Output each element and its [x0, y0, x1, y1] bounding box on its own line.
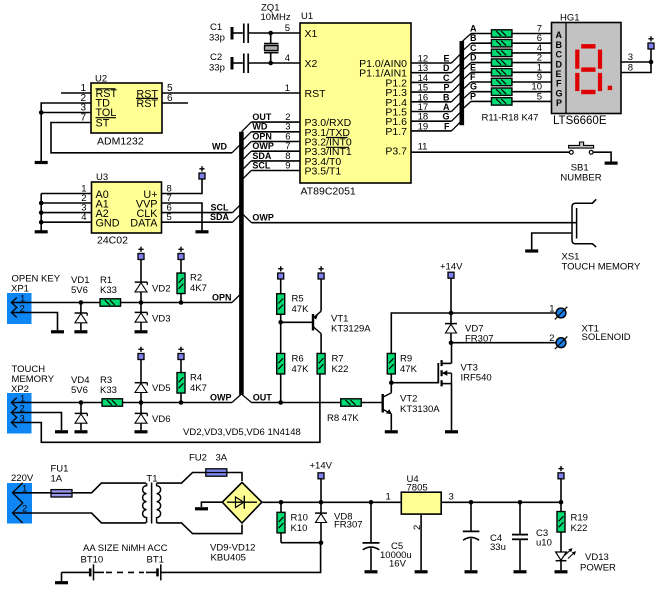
junction C1/ZQ1 — [268, 31, 273, 36]
transistor VT3 IRF540 (MOSFET) — [438, 360, 451, 386]
svg-text:3: 3 — [449, 492, 454, 503]
capacitor C3 — [512, 502, 528, 570]
ground U3 left — [35, 230, 48, 233]
diode VD7 FR307 — [450, 313, 452, 324]
svg-text:C: C — [443, 73, 450, 83]
svg-text:F: F — [444, 121, 450, 131]
wire U2 pin6 stub — [162, 102, 188, 104]
display HG1 body — [552, 23, 622, 114]
bus vertical (display) — [459, 41, 464, 125]
wire U3 pin4 — [41, 221, 91, 223]
IC U2 body — [91, 83, 162, 133]
junction VD8 top — [319, 500, 324, 505]
svg-text:X2: X2 — [305, 58, 318, 70]
ground C3 — [514, 570, 527, 573]
wire ground to BT10 — [62, 571, 90, 573]
junction U3 pin4 — [39, 220, 44, 225]
wire SB1 to ground — [593, 152, 611, 162]
ground battery — [61, 572, 63, 582]
wire XT1 pin2 — [451, 342, 559, 344]
svg-text:G: G — [470, 82, 477, 92]
svg-text:OUT: OUT — [252, 112, 272, 122]
svg-text:1: 1 — [549, 303, 554, 314]
resistor R1 — [100, 299, 121, 306]
svg-text:16V: 16V — [389, 559, 407, 570]
svg-text:WD: WD — [212, 142, 227, 152]
resistor R18 — [491, 98, 512, 105]
terminal XT1.1 — [555, 307, 568, 320]
svg-text:AA SIZE NiMH ACC: AA SIZE NiMH ACC — [83, 543, 168, 554]
wire R10 bottom — [281, 542, 321, 544]
connector XP1 body — [7, 293, 32, 324]
ground VT2 — [385, 430, 398, 433]
LED VD13 — [556, 548, 576, 570]
wire U3 pin8 to +5V — [162, 179, 203, 194]
junction VD1 — [79, 300, 84, 305]
svg-text:SCL: SCL — [211, 203, 230, 213]
svg-text:C2: C2 — [210, 52, 222, 63]
bridge rectifier VD9-VD12 — [222, 482, 261, 523]
7-seg segment B — [598, 50, 602, 69]
ground bridge — [195, 507, 208, 510]
svg-text:3: 3 — [628, 52, 633, 63]
wire U4 out rail — [441, 479, 561, 503]
wire R3 to OWP slash — [123, 402, 233, 404]
junction R5/VT1 base — [278, 320, 283, 325]
wire FU1 to T1 primary — [72, 483, 146, 493]
junction C5 — [369, 500, 374, 505]
transistor VT2 KT3130A (NPN) — [383, 383, 392, 431]
svg-text:C: C — [470, 43, 477, 53]
svg-text:47K: 47K — [292, 364, 310, 375]
junction VD4 — [79, 400, 84, 405]
svg-text:R5: R5 — [292, 294, 304, 305]
svg-text:u10: u10 — [536, 538, 552, 549]
wires U1 P1.x to bus with slashes — [411, 53, 461, 131]
wire OUT row to U1 pin2 — [251, 121, 300, 123]
junction U3 pin2 — [39, 201, 44, 206]
junction +14V/VD7 — [449, 311, 454, 316]
connector XP2 contacts — [11, 398, 16, 428]
capacitor C2 — [231, 57, 234, 70]
junction R9/gate — [389, 380, 394, 385]
svg-text:E: E — [556, 69, 562, 79]
svg-text:24C02: 24C02 — [97, 235, 128, 247]
ground C4 — [465, 570, 478, 573]
svg-text:R10: R10 — [291, 513, 308, 524]
junction R4 — [179, 400, 184, 405]
svg-text:K33: K33 — [100, 385, 117, 396]
svg-text:X1: X1 — [305, 28, 318, 40]
svg-text:33p: 33p — [209, 63, 225, 74]
wire XP1 pin2 to ground — [11, 313, 57, 331]
wire +14V node down — [320, 479, 322, 503]
node +5V (R2) — [178, 247, 184, 260]
resistor R12 — [491, 40, 512, 47]
svg-text:R8 47K: R8 47K — [327, 413, 359, 424]
ground VD13 — [555, 570, 568, 573]
svg-text:1: 1 — [386, 492, 391, 503]
wire FU2 to bridge top — [227, 473, 242, 482]
svg-text:C1: C1 — [210, 22, 222, 33]
ground VD3 — [135, 330, 148, 333]
svg-text:SDA: SDA — [252, 151, 272, 161]
svg-text:5V6: 5V6 — [71, 385, 88, 396]
crystal ZQ1 — [264, 33, 279, 63]
svg-text:OPN: OPN — [252, 131, 272, 141]
wire SCL row to U1 pin9 — [251, 170, 300, 172]
resistor R9 — [387, 353, 395, 374]
wire OWP row to U1 pin7 — [251, 150, 300, 152]
svg-text:T1: T1 — [146, 474, 157, 485]
svg-text:B: B — [470, 33, 477, 43]
battery BT1 — [158, 564, 161, 580]
IC U4 7805 body — [401, 492, 441, 514]
svg-text:SDA: SDA — [210, 212, 230, 222]
svg-text:B: B — [556, 40, 563, 50]
fuse FU1 — [51, 490, 72, 497]
resistor R16 — [491, 78, 512, 85]
wire OWP from bus to XS1 — [242, 214, 251, 223]
resistor R14 — [491, 59, 512, 66]
resistor R4 — [180, 360, 182, 373]
7-seg segment F — [575, 50, 579, 69]
junction VD2 — [139, 300, 144, 305]
svg-text:47K: 47K — [292, 304, 310, 315]
svg-text:9: 9 — [285, 160, 290, 171]
svg-text:SCL: SCL — [252, 160, 271, 170]
wire U3 pin6 SCL to bus — [162, 212, 233, 214]
svg-text:TOUCH MEMORY: TOUCH MEMORY — [562, 262, 641, 273]
svg-text:AT89C2051: AT89C2051 — [301, 186, 356, 198]
resistor R11 — [491, 30, 512, 37]
svg-text:R7: R7 — [332, 354, 344, 365]
svg-text:5: 5 — [167, 212, 172, 223]
resistor R7 — [317, 353, 325, 374]
wire VT3 source to ground — [451, 384, 453, 431]
svg-text:P3.7: P3.7 — [385, 146, 407, 158]
node +14V (bottom) — [318, 473, 324, 479]
node +5V (R4) — [178, 347, 184, 360]
svg-text:5: 5 — [285, 23, 290, 34]
svg-text:4K7: 4K7 — [190, 383, 207, 394]
svg-text:FU2: FU2 — [189, 453, 207, 464]
wire C2 to U1 X2 — [249, 62, 300, 64]
svg-text:KT3130A: KT3130A — [400, 404, 440, 415]
ground XP1 — [51, 330, 64, 333]
bus vertical (left) — [239, 132, 244, 395]
wire HG1 pin3 — [621, 61, 651, 63]
junction VD5 — [139, 400, 144, 405]
svg-text:6: 6 — [167, 93, 173, 104]
wire U2 pin2 to vertical — [41, 103, 91, 113]
contact XS1 inner — [576, 208, 578, 239]
svg-text:K22: K22 — [571, 523, 588, 534]
svg-text:VD2,VD3,VD5,VD6 1N4148: VD2,VD3,VD5,VD6 1N4148 — [183, 427, 301, 438]
wire U3 pin2 — [41, 202, 91, 204]
ground VT3 — [445, 430, 458, 433]
ground XS1 — [525, 249, 538, 252]
wire T1 secondary top to FU2 — [157, 473, 206, 484]
svg-text:FR307: FR307 — [334, 520, 363, 531]
junction U2 pins2/3 — [39, 110, 44, 115]
svg-text:U3: U3 — [96, 172, 108, 183]
svg-text:R9: R9 — [400, 354, 412, 365]
connector XP3 220V body — [7, 483, 32, 524]
7-seg segment G — [581, 67, 595, 71]
zener VD1 — [80, 303, 82, 314]
resistor R2 — [180, 260, 182, 274]
wire U1 pin11 to SB1 — [411, 151, 569, 153]
fuse FU2 — [206, 469, 227, 476]
junction HG1 supply — [649, 60, 654, 65]
junction U3 pin3 — [39, 210, 44, 215]
svg-text:P: P — [470, 91, 476, 101]
node +5V (VD2) — [138, 247, 144, 260]
junction R19 — [559, 500, 564, 505]
junction C4 — [469, 500, 474, 505]
resistor R17 — [491, 88, 512, 95]
svg-text:P3.5/T1: P3.5/T1 — [305, 166, 342, 178]
svg-text:5: 5 — [537, 91, 542, 102]
resistor R10 — [280, 502, 282, 512]
battery BT10 — [90, 564, 93, 580]
wire XP2 pin1 to R3 — [11, 402, 102, 404]
node +5V (display) — [648, 36, 654, 49]
svg-text:33u: 33u — [490, 542, 506, 553]
svg-text:DATA: DATA — [130, 218, 158, 230]
svg-text:U2: U2 — [95, 74, 107, 85]
7-seg segment E — [575, 73, 579, 91]
resistor R6 — [280, 322, 282, 353]
ground VD1 — [74, 330, 87, 333]
svg-text:+14V: +14V — [310, 461, 333, 472]
resistor R13 — [491, 49, 512, 56]
svg-text:WD: WD — [252, 122, 267, 132]
wire 220V.2 to T1 primary — [13, 513, 147, 523]
ground XP2 — [55, 430, 68, 433]
svg-text:SOLENOID: SOLENOID — [582, 332, 631, 343]
svg-text:1: 1 — [285, 83, 290, 94]
wire OUT row to R8 — [252, 402, 342, 404]
wire VT3 drain up — [451, 343, 453, 364]
connector XP1 contacts — [11, 298, 16, 318]
node +5V (VD5) — [138, 347, 144, 360]
svg-text:HG1: HG1 — [560, 13, 580, 24]
svg-text:OWP: OWP — [252, 213, 274, 223]
zener VD3 — [140, 303, 142, 313]
diode VD8 FR307 — [320, 502, 322, 513]
svg-text:IRF540: IRF540 — [461, 373, 492, 384]
7-seg segment A — [581, 44, 595, 48]
svg-text:G: G — [556, 88, 563, 98]
junction R10 top — [279, 500, 284, 505]
wire WD bus entry slash — [232, 144, 241, 153]
svg-text:RST: RST — [305, 88, 327, 100]
wire WD row to U1 pin3 — [251, 131, 300, 133]
resistor rows A-P to HG1 — [462, 34, 552, 110]
resistor R15 — [491, 69, 512, 76]
zener VD4 — [80, 403, 82, 414]
wire OPN slash to bus — [232, 293, 241, 302]
IC U3 body — [92, 182, 162, 233]
svg-text:7805: 7805 — [407, 483, 428, 494]
junction C2/ZQ1 — [268, 61, 273, 66]
wire XP2 pin2 to ground — [11, 413, 61, 431]
svg-text:5V6: 5V6 — [71, 285, 88, 296]
svg-text:KBU405: KBU405 — [211, 553, 246, 564]
svg-text:VD6: VD6 — [152, 414, 170, 425]
transformer T1 primary winding — [143, 483, 147, 523]
wire XP2 pin3 to R7 bottom — [11, 374, 320, 442]
connector XP2 body — [7, 393, 32, 434]
svg-text:4: 4 — [285, 53, 290, 64]
svg-text:P: P — [443, 83, 449, 93]
ground VD6 — [135, 430, 148, 433]
wire base VT1 — [281, 321, 313, 323]
svg-text:ST: ST — [96, 117, 110, 129]
svg-text:VD2: VD2 — [152, 284, 170, 295]
ground VD4 — [75, 430, 88, 433]
wire C1 to U1 X1 — [249, 32, 300, 34]
svg-text:E: E — [443, 54, 449, 64]
ground U2 — [35, 161, 48, 164]
svg-text:NUMBER: NUMBER — [560, 172, 601, 183]
wire U3 pin1 — [41, 193, 91, 195]
svg-text:P1.7: P1.7 — [385, 126, 407, 138]
wire SDA row to U1 pin8 — [251, 160, 300, 162]
svg-text:P: P — [556, 98, 562, 108]
svg-text:R11-R18 K47: R11-R18 K47 — [482, 113, 539, 124]
svg-text:+14V: +14V — [440, 262, 463, 273]
svg-text:VT2: VT2 — [400, 394, 417, 405]
svg-text:G: G — [442, 112, 449, 122]
wire R8 to VT2 base — [361, 402, 382, 404]
svg-text:K33: K33 — [100, 285, 117, 296]
7-seg decimal point — [608, 86, 612, 90]
svg-text:11: 11 — [418, 142, 428, 153]
node +5V (VT1) — [318, 266, 324, 279]
svg-text:LTS6660E: LTS6660E — [553, 115, 607, 127]
transistor VT1 KT3129A (PNP) — [313, 279, 321, 353]
wire XS1 ground side — [532, 233, 572, 250]
wire U2 pin5 RST to U1 RST — [162, 92, 300, 94]
wire U3 left vertical to ground — [40, 194, 42, 231]
svg-text:7: 7 — [80, 113, 86, 124]
terminal XT1.2 — [555, 336, 568, 349]
wire R9 top / XT1 pin1 rail — [391, 313, 558, 353]
wire U3 pin7 to ground — [162, 203, 203, 231]
svg-text:R4: R4 — [190, 373, 202, 384]
zener VD6 — [140, 403, 142, 414]
svg-text:BT10: BT10 — [81, 555, 104, 566]
svg-text:E: E — [470, 62, 476, 72]
svg-text:K10: K10 — [291, 523, 308, 534]
wire XP1 pin1 to R1 — [11, 302, 100, 304]
svg-text:F: F — [556, 79, 562, 89]
node +5V (U3) — [199, 166, 205, 179]
svg-text:K22: K22 — [332, 364, 349, 375]
wire U3 pin5 SDA to bus — [162, 221, 233, 223]
wire OPN row to U1 pin6 — [251, 141, 300, 143]
wire U2 pin3 + down to ground — [41, 113, 91, 162]
svg-text:R2: R2 — [190, 273, 202, 284]
svg-text:OWP: OWP — [210, 392, 232, 402]
7-seg segment D — [581, 90, 595, 94]
wire bus bottom to OUT — [242, 394, 252, 402]
wire OWP slash to bus bottom — [232, 394, 241, 402]
zener VD5 — [140, 360, 142, 383]
transformer T1 core — [151, 483, 153, 524]
junction R2 — [179, 300, 184, 305]
svg-text:RST: RST — [136, 98, 158, 110]
svg-text:3A: 3A — [216, 453, 228, 464]
svg-text:47K: 47K — [400, 364, 418, 375]
junction OUT/R6 — [278, 400, 283, 405]
svg-text:C: C — [556, 50, 563, 60]
svg-text:D: D — [470, 53, 477, 63]
svg-text:D: D — [443, 63, 450, 73]
ground C5 — [365, 570, 378, 573]
contact XS1 outer — [572, 199, 596, 247]
resistor R8 — [341, 399, 362, 406]
node + (5V out) — [558, 466, 564, 479]
switch SB1 — [569, 142, 594, 154]
wire U3 pin3 — [41, 212, 91, 214]
svg-text:4: 4 — [81, 212, 86, 223]
svg-text:A: A — [443, 102, 450, 112]
svg-text:8: 8 — [628, 63, 633, 74]
wire gate VT3 — [391, 382, 438, 384]
ground SB1 — [605, 162, 618, 165]
zener VD2 — [140, 260, 142, 283]
svg-text:VD5: VD5 — [152, 383, 170, 394]
svg-text:BT1: BT1 — [147, 555, 164, 566]
svg-text:220V: 220V — [11, 473, 34, 484]
node +14V (top) — [448, 272, 454, 278]
svg-text:OPN: OPN — [212, 292, 232, 302]
node +5V (R5) — [278, 266, 284, 279]
wire BT1 to VD8 node — [161, 543, 321, 573]
svg-text:D: D — [556, 59, 563, 69]
svg-text:VD3: VD3 — [152, 314, 170, 325]
wire dashed (battery chain) — [106, 571, 144, 573]
resistor R5 — [280, 279, 282, 294]
wire bridge left to ground — [201, 502, 222, 507]
svg-text:B: B — [443, 92, 450, 102]
7-seg segment C — [598, 73, 602, 91]
wire U4 pin2 to ground — [420, 514, 422, 570]
ground U3 right — [196, 230, 209, 233]
svg-text:19: 19 — [418, 121, 429, 132]
transformer T1 secondary winding — [157, 483, 161, 523]
connector 220V contacts — [13, 483, 23, 523]
svg-text:4K7: 4K7 — [190, 283, 207, 294]
svg-text:10MHz: 10MHz — [261, 12, 291, 23]
svg-text:33p: 33p — [209, 33, 225, 44]
capacitor C4 (polarized) — [463, 502, 480, 570]
svg-text:U1: U1 — [301, 11, 313, 22]
svg-text:OUT: OUT — [253, 392, 272, 402]
IC U1 body — [300, 23, 411, 183]
wire U2 pin7 ST to WD bus entry — [51, 123, 232, 153]
wire HG1 pin8 — [621, 62, 651, 73]
svg-text:POWER: POWER — [580, 562, 616, 573]
svg-text:F: F — [470, 72, 476, 82]
wire T1 secondary bottom to bridge bottom — [157, 523, 242, 534]
svg-text:KT3129A: KT3129A — [331, 324, 371, 335]
ground U4 — [415, 570, 428, 573]
